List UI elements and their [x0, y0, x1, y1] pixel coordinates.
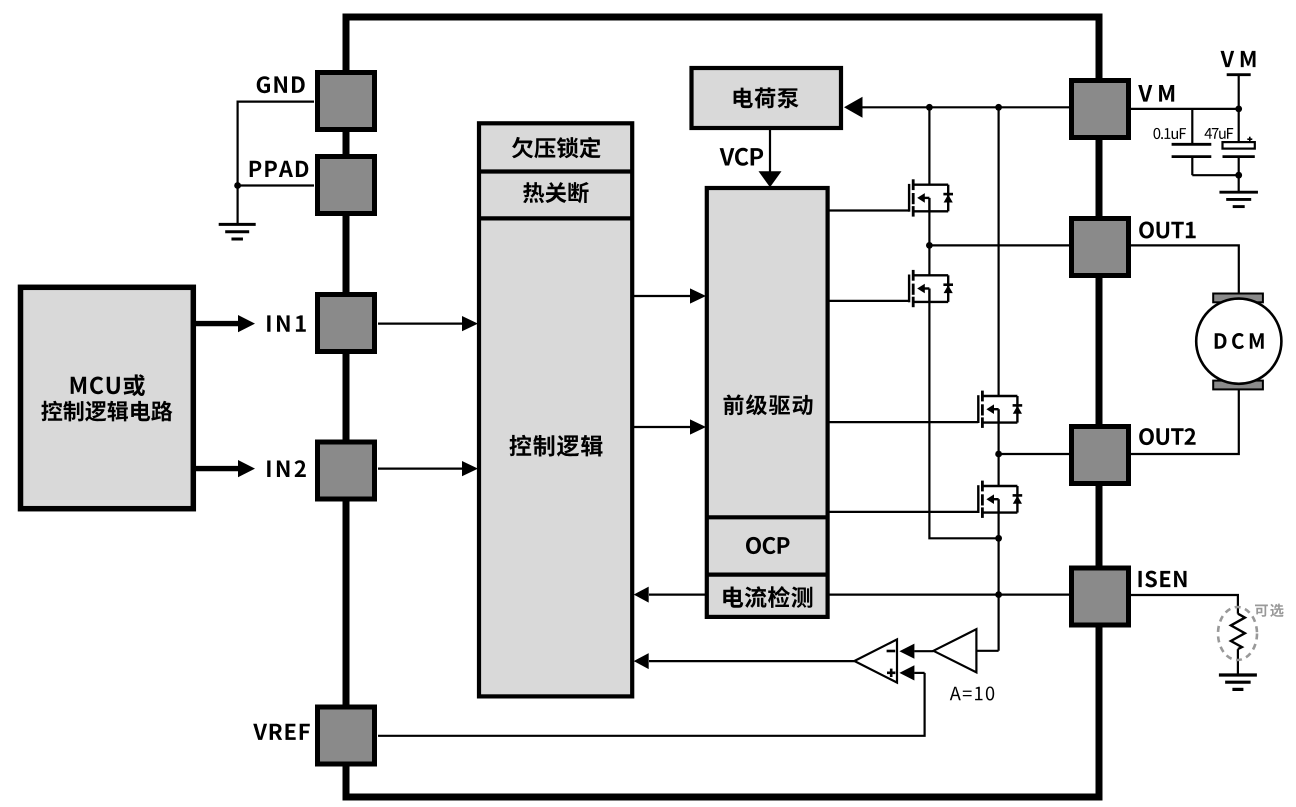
resistor R1 (optional sense) — [1231, 614, 1245, 649]
wire: gate drive Q3 — [828, 421, 979, 423]
wire: ISEN node to buffer input — [976, 650, 998, 652]
node: half-bridge 2 drain tap — [995, 104, 1002, 111]
wire: IN1 pin to control logic — [378, 323, 462, 325]
wire: current sense to control logic — [649, 593, 707, 595]
pin VREF — [318, 707, 375, 764]
wire: Q2 source down to sense rail — [929, 302, 998, 538]
label 控制逻辑电路 (line 2) — [41, 401, 172, 422]
label MCU或 (line 1) — [71, 374, 145, 396]
wire: control logic to pre-driver (upper) — [632, 295, 690, 297]
transistor Q4 (low-side, OUT2) — [978, 481, 1022, 518]
motor DCM body — [1196, 299, 1281, 384]
label 欠压锁定 (UVLO) — [512, 137, 601, 158]
wire: motor to OUT2 pin — [1130, 390, 1239, 454]
label 47uF — [1205, 128, 1234, 139]
divider above OCP section — [707, 515, 828, 519]
label OCP — [746, 537, 790, 554]
pin PPAD — [318, 157, 375, 214]
block: MCU / control logic (external) — [21, 287, 194, 508]
wire: OUT1 pin to motor — [1130, 245, 1239, 293]
pin label IN2 — [267, 460, 306, 477]
arrow: VREF to U1 non-inverting input — [899, 665, 914, 680]
wire: VM supply terminal stem — [1238, 76, 1240, 109]
wire: VREF pin to U1 non-inverting input — [378, 673, 925, 736]
buffer U2 (ISEN follower) — [933, 629, 976, 672]
wire: OUT1 node to OUT1 pin — [929, 244, 1070, 246]
ground symbol (sense resistor) — [1219, 673, 1257, 676]
IC boundary outline — [346, 17, 1099, 797]
wire: control logic to pre-driver (lower) — [632, 426, 690, 428]
transistor Q2 (low-side, OUT1) — [909, 270, 953, 307]
VM supply terminal bar — [1227, 73, 1251, 76]
pin OUT1 — [1072, 219, 1129, 276]
wire: Q1 drain to VM rail — [928, 107, 930, 185]
pin OUT2 — [1072, 427, 1129, 484]
transistor Q1 (high-side, OUT1) — [909, 179, 953, 216]
pin ISEN — [1072, 568, 1129, 625]
divider above current-sense section — [707, 572, 828, 576]
transistor Q3 (high-side, OUT2) — [978, 391, 1022, 428]
wire: VM pin to decoupling node — [1130, 108, 1239, 110]
label 控制逻辑 (control logic) — [510, 435, 603, 457]
wire: charge pump VCP to pre-driver — [769, 130, 771, 172]
dashed ellipse (optional marker) — [1218, 607, 1257, 660]
wire: amplifier output to control logic — [649, 660, 854, 662]
wire: VM pin to charge pump — [861, 106, 1070, 108]
pin label PPAD — [250, 161, 309, 177]
node: VM decoupling junction (top) — [1235, 106, 1242, 113]
wire: Q4 source to sense rail and buffer — [997, 513, 999, 651]
pin VM — [1072, 81, 1129, 138]
wire: Q1 source to OUT1 node — [928, 212, 930, 246]
ground symbol (GND/PPAD) — [219, 223, 256, 226]
motor brush terminal (top) — [1213, 294, 1263, 303]
label 电流检测 (current sense) — [723, 586, 812, 608]
wire: gate drive Q4 — [828, 511, 979, 513]
ground symbol (VM decoupling) — [1219, 191, 1258, 194]
pin label IN1 — [267, 315, 306, 331]
label VM (supply) — [1221, 51, 1256, 67]
block: UVLO/thermal/control-logic stack — [479, 123, 632, 696]
node: PPAD-GND junction — [234, 182, 241, 189]
wire: PPAD pin to ground stem — [238, 184, 314, 186]
divider under thermal-shutdown section — [479, 216, 632, 220]
node: half-bridge 1 drain tap — [926, 104, 933, 111]
node: ISEN line junction — [995, 591, 1002, 598]
pin GND — [318, 73, 375, 130]
pin label OUT2 — [1139, 428, 1195, 445]
wire: gate drive Q2 — [828, 300, 910, 302]
label 前级驱动 (pre-driver) — [724, 394, 813, 415]
divider under UVLO section — [479, 169, 632, 173]
label A=10 — [950, 687, 994, 701]
label VCP — [720, 148, 764, 166]
wire: OUT1 node to Q2 drain — [928, 245, 930, 275]
capacitor C2 47uF (electrolytic) — [1238, 109, 1240, 142]
block: pre-driver stack — [707, 188, 828, 617]
wire: GND pin to external ground — [238, 102, 314, 224]
wire: current sense block to ISEN pin — [828, 593, 1070, 595]
label 0.1uF — [1154, 128, 1187, 139]
arrow: MCU to IN1 (thick) — [193, 321, 238, 326]
label 电荷泵 (charge pump) — [734, 87, 799, 108]
pin label VM — [1138, 85, 1174, 102]
wire: Q3 drain to VM rail — [997, 107, 999, 396]
pin IN1 — [318, 295, 375, 352]
node: OUT1 junction — [926, 242, 933, 249]
wire: Q3 source to OUT2 node to Q4 drain — [997, 423, 999, 486]
wire: OUT2 node to OUT2 pin — [999, 453, 1070, 455]
node: sense rail junction — [995, 535, 1002, 542]
block: charge pump — [692, 68, 842, 128]
wire: gate drive Q1 — [828, 209, 910, 211]
pin IN2 — [318, 442, 375, 499]
pin label VREF — [253, 724, 310, 740]
pin label GND — [257, 76, 305, 93]
wire: decoupling to ground — [1238, 175, 1240, 191]
node: VM decoupling junction (bottom) — [1235, 172, 1242, 179]
arrow: buffer to U1 inverting input — [899, 644, 914, 659]
wire: IN2 pin to control logic — [378, 468, 462, 470]
pin label OUT1 — [1139, 222, 1196, 239]
label 热关断 (thermal shutdown) — [523, 182, 589, 203]
node: OUT2 junction — [995, 451, 1002, 458]
label DCM — [1215, 333, 1264, 349]
label 可选 — [1255, 604, 1284, 617]
motor brush terminal (bottom) — [1213, 381, 1263, 390]
wire: ISEN pin to sense resistor — [1130, 595, 1238, 614]
op-amp U1 (A=10 sense amplifier) — [854, 639, 897, 682]
pin label ISEN — [1139, 571, 1187, 588]
arrow: MCU to IN2 (thick) — [193, 466, 238, 471]
capacitor C1 0.1uF — [1191, 109, 1193, 143]
